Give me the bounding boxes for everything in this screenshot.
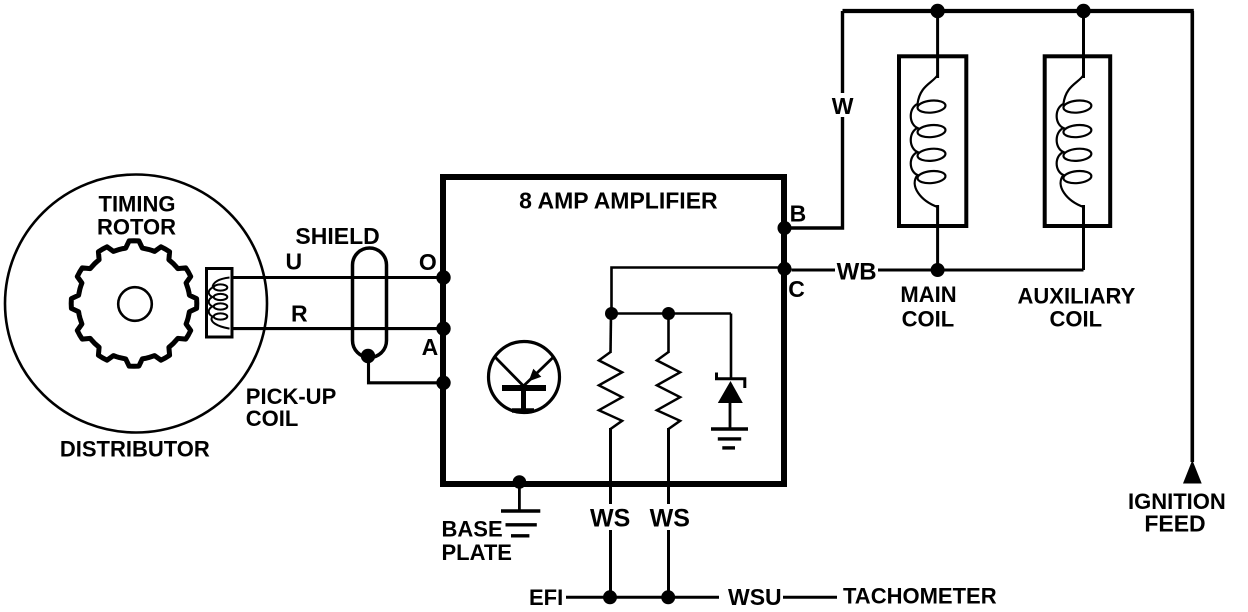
wire WS 1 xyxy=(609,428,612,597)
main coil bottom lead xyxy=(936,205,939,270)
junction dot auxiliary coil top xyxy=(1076,4,1090,18)
transistor Q1 bottom bar xyxy=(512,408,534,413)
junction dot EFI/WS1 xyxy=(603,590,617,604)
resistor R1 xyxy=(599,352,622,429)
terminal dot shield drain xyxy=(436,376,450,390)
top supply rail xyxy=(843,9,1194,13)
auxiliary coil bottom lead xyxy=(1082,205,1085,270)
svg-text:COIL: COIL xyxy=(246,406,299,431)
terminal dot A xyxy=(436,321,450,335)
zener diode D1 triangle xyxy=(718,381,743,403)
svg-text:WS: WS xyxy=(650,504,690,532)
wire R xyxy=(231,327,443,330)
svg-text:8 AMP AMPLIFIER: 8 AMP AMPLIFIER xyxy=(519,188,718,214)
wire U xyxy=(231,276,443,279)
wire R1 top stub xyxy=(609,314,612,354)
wire W from B to top rail xyxy=(785,11,843,228)
svg-text:COIL: COIL xyxy=(902,306,955,331)
svg-text:U: U xyxy=(285,249,302,275)
svg-text:MAIN: MAIN xyxy=(900,282,956,307)
junction node dot R1 top xyxy=(605,307,618,320)
shield drain wire xyxy=(369,356,444,383)
wire WS2 to WSU xyxy=(669,596,720,599)
svg-text:W: W xyxy=(832,93,854,119)
transistor Q1 base lead xyxy=(521,388,526,409)
label WS 1 xyxy=(590,504,630,532)
auxiliary coil top lead xyxy=(1082,11,1085,78)
wire internal bus to zener xyxy=(612,312,732,315)
transistor Q1 collector diagonal xyxy=(494,356,524,386)
junction dot WB main coil xyxy=(931,263,945,277)
pick-up coil winding xyxy=(209,278,230,329)
wire WS 2 xyxy=(667,428,670,597)
transistor Q1 emitter diagonal xyxy=(524,357,554,386)
svg-text:A: A xyxy=(422,334,439,360)
label W xyxy=(829,93,856,119)
resistor R2 xyxy=(657,352,680,429)
timing rotor gear xyxy=(71,241,197,367)
auxiliary coil winding L2 xyxy=(1057,75,1092,207)
svg-text:ROTOR: ROTOR xyxy=(97,215,176,240)
svg-text:C: C xyxy=(788,276,805,302)
svg-text:R: R xyxy=(291,301,308,327)
transistor Q1 base bar xyxy=(502,385,546,391)
wire WB from C xyxy=(792,269,836,272)
amplifier box xyxy=(443,177,784,484)
wire EFI to WS1 xyxy=(566,596,611,599)
zener diode D1 anode lead xyxy=(729,403,732,429)
internal ground symbol xyxy=(711,429,748,448)
base plate junction dot xyxy=(513,475,527,489)
ignition feed drop wire xyxy=(1191,11,1195,462)
junction node dot R2 top xyxy=(662,307,675,320)
pick-up coil body xyxy=(207,269,233,338)
wire between WS dots xyxy=(611,596,669,599)
base plate ground symbol xyxy=(501,511,540,536)
svg-text:TACHOMETER: TACHOMETER xyxy=(843,584,997,609)
zener diode D1 cathode bar xyxy=(717,373,745,389)
svg-text:COIL: COIL xyxy=(1050,306,1103,331)
svg-text:PLATE: PLATE xyxy=(442,540,512,565)
main coil winding L1 xyxy=(911,75,946,207)
rotor shaft inner circle xyxy=(118,287,152,321)
junction dot WS2 xyxy=(661,590,675,604)
terminal dot O xyxy=(436,270,450,284)
main coil box xyxy=(899,56,966,226)
base plate ground lead xyxy=(518,484,521,511)
svg-text:EFI: EFI xyxy=(529,585,563,610)
shield capsule xyxy=(353,248,387,358)
wire to zener cathode xyxy=(730,314,733,379)
distributor housing circle xyxy=(5,175,267,433)
svg-text:O: O xyxy=(419,249,437,275)
transistor Q1 emitter arrow xyxy=(529,369,542,382)
svg-text:DISTRIBUTOR: DISTRIBUTOR xyxy=(60,437,210,462)
main coil top lead xyxy=(936,11,939,78)
junction dot main coil top xyxy=(930,4,944,18)
terminal dot C xyxy=(778,262,792,276)
wire R2 top stub xyxy=(667,314,670,354)
svg-text:TIMING: TIMING xyxy=(99,192,176,217)
shield ground junction dot xyxy=(361,349,375,363)
wire WB to coils xyxy=(878,269,1084,272)
svg-text:SHIELD: SHIELD xyxy=(295,223,379,249)
auxiliary coil box xyxy=(1045,56,1111,226)
svg-text:AUXILIARY: AUXILIARY xyxy=(1018,283,1136,308)
wire WSU to tachometer xyxy=(783,596,837,599)
svg-text:FEED: FEED xyxy=(1144,511,1205,537)
svg-text:WB: WB xyxy=(837,259,877,286)
svg-text:B: B xyxy=(790,200,807,226)
transistor Q1 circle xyxy=(489,342,560,413)
svg-text:BASE: BASE xyxy=(442,517,503,542)
label WS 2 xyxy=(650,504,690,532)
svg-text:WSU: WSU xyxy=(728,584,782,610)
svg-text:WS: WS xyxy=(590,504,630,532)
wire from terminal C into box xyxy=(612,268,782,314)
ignition feed terminal triangle xyxy=(1183,460,1202,484)
terminal dot B xyxy=(778,221,792,235)
